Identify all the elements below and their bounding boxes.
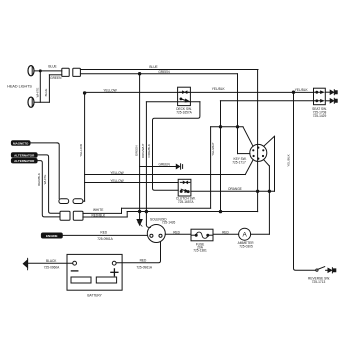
deck switch DECK SW. 725-1657A (178, 87, 191, 105)
node white ground junction (138, 210, 140, 212)
svg-text:BLUE: BLUE (149, 65, 157, 69)
svg-text:GREEN: GREEN (134, 145, 138, 156)
svg-text:725-0305: 725-0305 (239, 245, 253, 249)
connector square 2 (73, 211, 83, 220)
svg-text:RED: RED (140, 259, 147, 263)
node orange junction 1 (256, 190, 258, 192)
svg-text:725-1657A: 725-1657A (178, 200, 194, 204)
terminal green spade (176, 164, 182, 169)
svg-text:725-1713: 725-1713 (312, 280, 326, 284)
node v2 junction (145, 210, 147, 212)
svg-text:YEL/BLK: YEL/BLK (287, 154, 291, 166)
connector pill 1 (59, 199, 69, 204)
wire green vertical v1 to ground (139, 74, 141, 220)
seat switch SEAT SW. 725-1708 725-1429 (314, 88, 331, 105)
svg-text:YEL/WHT: YEL/WHT (211, 142, 215, 156)
node seat riser junction (292, 91, 294, 93)
wire blue long top (80, 70, 258, 212)
wire fuse to ammeter red (213, 233, 239, 235)
node riser bottom junction (219, 210, 221, 212)
wire magneto to connector (30, 143, 59, 199)
alternator label box 2 (11, 159, 37, 163)
wire connector pill to yellow vertical (83, 200, 85, 202)
svg-text:YELLOW: YELLOW (110, 179, 123, 183)
wire orange (191, 190, 275, 192)
wire key bottom-right diagonal to ammeter (251, 160, 270, 234)
svg-text:A: A (242, 232, 247, 239)
svg-text:RED: RED (173, 230, 180, 234)
ground chassis arrow center (137, 220, 142, 227)
svg-text:HEAD LIGHTS: HEAD LIGHTS (7, 85, 32, 89)
head lights lamp 1 (28, 66, 34, 76)
svg-text:ALTERNATOR: ALTERNATOR (14, 153, 35, 157)
connector square 1 (60, 211, 70, 220)
svg-text:RED: RED (222, 230, 229, 234)
connector pill 2 (73, 199, 83, 204)
node orange junction 2 (268, 190, 270, 192)
engine label box (41, 233, 62, 238)
svg-text:YELLOW: YELLOW (103, 88, 116, 92)
wire alternator white (37, 155, 60, 213)
wire white horizontal upper (83, 127, 211, 214)
clutch switch CLUTCH SW. 725-1657A (178, 179, 191, 196)
wire yellow/black main horizontal (85, 91, 314, 93)
wire org/wht v2 (146, 102, 150, 228)
battery box (67, 254, 122, 290)
wire yel/blk riser to reverse switch (294, 92, 317, 270)
svg-text:MAGNETO: MAGNETO (13, 141, 29, 145)
node riser junction 1 (219, 126, 221, 128)
wire yellow vertical left (84, 93, 86, 201)
svg-text:ORG/WHT: ORG/WHT (141, 143, 145, 158)
wire green long top (80, 74, 249, 154)
svg-text:YEL/BLK: YEL/BLK (295, 88, 309, 92)
svg-text:725-1717: 725-1717 (232, 161, 246, 165)
wire key top-right diagonal yel/blk (264, 136, 275, 191)
node yellow start (83, 92, 85, 94)
solenoid SOLENOID 725-1426 (147, 225, 165, 243)
svg-text:GREEN: GREEN (159, 163, 171, 167)
svg-text:725-1381: 725-1381 (193, 249, 207, 253)
svg-text:725-1426: 725-1426 (162, 221, 176, 225)
node riser junction 2 (236, 126, 238, 128)
wire seat line lower (220, 101, 313, 212)
magneto label box (11, 141, 30, 146)
svg-text:BLACK: BLACK (46, 259, 57, 263)
alternator label box 1 (11, 153, 37, 157)
wire org/blk v3 loop from deck switch (146, 102, 200, 191)
svg-text:725-0961A: 725-0961A (136, 265, 152, 269)
svg-text:ENGINE: ENGINE (46, 234, 58, 238)
wire green horizontal to terminal (140, 166, 177, 168)
wire solenoid to battery plus (116, 242, 160, 262)
wire red/blk lower horizontal to key switch (83, 212, 258, 218)
wire yellow line B to clutch switch (85, 182, 179, 184)
reverse switch REVERSE SW. 725-1713 (316, 267, 336, 273)
svg-text:725-0960A: 725-0960A (44, 265, 60, 269)
fuse FUSE 20A 725-1381 (191, 229, 213, 241)
connector plug B (73, 68, 81, 76)
wire lamp1 to connector (blue) (34, 70, 62, 72)
svg-text:WHITE: WHITE (93, 208, 103, 212)
svg-text:GREEN: GREEN (158, 70, 170, 74)
wire engine to solenoid red (62, 234, 147, 236)
svg-text:WHITE: WHITE (43, 175, 47, 185)
svg-text:ALTERNATOR: ALTERNATOR (14, 159, 35, 163)
wire blue vertical between lamps (49, 75, 61, 102)
svg-text:YELLOW: YELLOW (79, 144, 83, 157)
svg-text:ORG/BLK: ORG/BLK (147, 144, 151, 157)
ammeter AMMETER 725-0195 (239, 228, 251, 240)
wire solenoid to fuse red (165, 233, 191, 235)
svg-text:GREEN: GREEN (50, 76, 62, 80)
svg-text:RED/BLK: RED/BLK (37, 173, 41, 186)
svg-text:725-0961A: 725-0961A (97, 237, 113, 241)
wire alternator red/blk (37, 161, 60, 217)
wire white vertical between lamps (39, 71, 41, 102)
head lights lamp 2 (28, 97, 34, 107)
terminal seat switch spade 1 (330, 90, 337, 95)
wire lamp2 horizontal (34, 101, 49, 103)
svg-text:BATTERY: BATTERY (87, 293, 102, 297)
svg-text:YEL/BLK: YEL/BLK (212, 87, 226, 91)
svg-text:ORANGE: ORANGE (228, 187, 242, 191)
connector plug A (62, 68, 69, 76)
svg-text:725-1657A: 725-1657A (176, 111, 192, 115)
node green junction (138, 73, 140, 75)
svg-text:WHITE: WHITE (36, 88, 40, 98)
svg-text:725-1429: 725-1429 (313, 114, 327, 118)
svg-text:BLUE: BLUE (44, 89, 48, 97)
key switch KEY SW. 725-1717 (250, 144, 267, 161)
svg-text:YELLOW: YELLOW (110, 171, 123, 175)
wire key switch ground horizontal (211, 127, 253, 146)
wire battery black to ground (28, 262, 73, 264)
white text in black boxes (13, 141, 57, 238)
wire yellow line A to key switch (85, 160, 253, 174)
ground chassis arrow battery (23, 258, 27, 270)
svg-text:RED: RED (100, 230, 107, 234)
svg-text:BLUE: BLUE (48, 65, 56, 69)
svg-text:RED/BLK: RED/BLK (91, 214, 106, 218)
terminal seat switch spade 2 (330, 98, 337, 103)
